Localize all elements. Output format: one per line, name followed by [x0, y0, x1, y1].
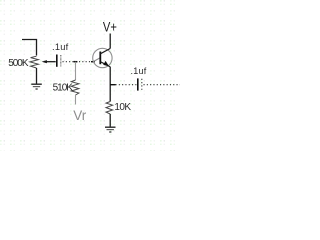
wire: top-left net from open end to potentiometer top: [22, 40, 37, 56]
ground symbol (left, below potentiometer): [31, 84, 42, 89]
wire: potentiometer bottom to ground: [36, 68, 38, 84]
transistor base bar: [99, 52, 101, 65]
wire: wiper to capacitor C1: [47, 61, 56, 63]
svg-text:10K: 10K: [114, 102, 131, 113]
junction dash at 510K tap: [74, 61, 78, 63]
dotted wire: C2 to right edge: [144, 84, 181, 86]
ground symbol (below 10K): [105, 127, 116, 132]
capacitor C1 left plate (solid): [56, 55, 58, 67]
gray wire: junction down to 510K: [75, 62, 77, 80]
capacitor C2 right plate (dotted): [141, 79, 143, 90]
wire: 10K to ground: [109, 114, 111, 127]
svg-text:Vr: Vr: [73, 108, 87, 123]
dotted wire: junction to C2: [116, 84, 138, 86]
gray wire: 510K bottom stub: [75, 95, 77, 105]
transistor collector diagonal: [100, 49, 110, 54]
wire: V+ down to collector: [109, 34, 111, 49]
svg-text:V+: V+: [103, 19, 117, 35]
svg-text:510K: 510K: [53, 82, 74, 93]
capacitor C1 right plate (gray/dotted): [60, 55, 62, 66]
background with grid dots: [0, 0, 180, 151]
junction dash near transistor base: [91, 61, 95, 63]
transistor Q1 circle (gray): [93, 48, 112, 67]
dotted wire: C1 to transistor base area: [63, 61, 94, 63]
transistor emitter diagonal: [100, 62, 110, 67]
potentiometer R1 500K body zigzag: [30, 56, 39, 68]
potentiometer wiper arrow: [42, 60, 47, 63]
transistor emitter arrow: [103, 61, 109, 66]
svg-text:.1uf: .1uf: [52, 42, 69, 52]
svg-text:500K: 500K: [8, 58, 29, 69]
junction dash at emitter node: [110, 84, 115, 86]
gray diagonal connector: wire to base bar: [94, 58, 101, 62]
capacitor C2 left plate (solid): [137, 78, 139, 90]
svg-text:.1uf: .1uf: [131, 66, 147, 76]
resistor 510K zigzag: [71, 80, 79, 95]
resistor 10K zigzag: [106, 102, 113, 115]
wire: emitter down through junction to 10K: [109, 67, 111, 102]
